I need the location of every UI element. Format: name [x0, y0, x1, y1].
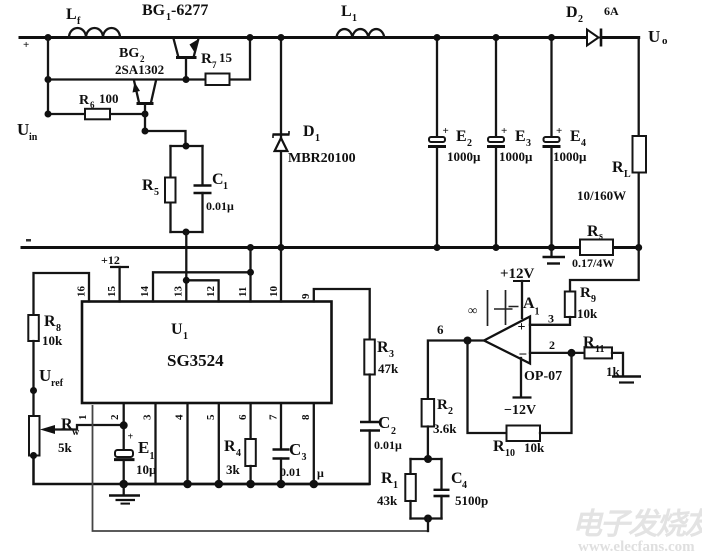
- signal ground bus y=484: [124, 483, 370, 486]
- junction pin4 bus: [183, 480, 192, 489]
- svg-text:0.17/4W: 0.17/4W: [572, 256, 614, 270]
- junction R1C4 bottom: [424, 515, 432, 523]
- svg-text:2: 2: [448, 406, 453, 417]
- svg-text:1: 1: [393, 480, 398, 491]
- resistor R6: [48, 109, 145, 120]
- svg-text:R: R: [224, 438, 236, 455]
- pin 9 wire to R3: [314, 289, 370, 340]
- label R6 100: [79, 91, 119, 110]
- capacitor C2: [360, 422, 380, 484]
- svg-text:2: 2: [391, 426, 396, 437]
- svg-text:10k: 10k: [42, 333, 63, 348]
- label RL: [612, 159, 631, 180]
- svg-text:R: R: [142, 177, 154, 194]
- pin 14 wire bracket to pin 11 column: [153, 272, 251, 301]
- svg-text:C: C: [378, 413, 390, 432]
- transistor BG1: [174, 39, 199, 80]
- label D2: [566, 4, 583, 25]
- svg-text:2: 2: [467, 138, 472, 149]
- svg-text:1: 1: [183, 331, 188, 342]
- svg-text:∞: ∞: [468, 303, 477, 318]
- junction E3 bottom: [493, 244, 500, 251]
- stray tick above bus left: [26, 239, 31, 242]
- svg-text:R: R: [79, 93, 90, 108]
- wire: output right column: [638, 38, 640, 248]
- svg-text:+12V: +12V: [500, 266, 535, 282]
- svg-text:C: C: [451, 470, 463, 487]
- junction R1C4 top: [424, 455, 432, 463]
- resistor R1: [405, 459, 416, 519]
- resistor R8: [28, 315, 39, 341]
- inductor Lf: [69, 28, 120, 38]
- resistor R5: [165, 146, 176, 232]
- junction D1 bottom on bus: [278, 244, 285, 251]
- svg-text:电子发烧友: 电子发烧友: [572, 508, 702, 541]
- junction R7 top on rail (248,37.5): [247, 34, 254, 41]
- label Rw: [61, 416, 80, 438]
- watermark elecfans: [572, 508, 702, 555]
- label U1: [171, 321, 188, 342]
- resistor R9: [565, 292, 576, 318]
- label R7 15: [201, 50, 233, 70]
- svg-text:5k: 5k: [58, 440, 73, 455]
- label Uo: [648, 27, 668, 47]
- resistor R7: [206, 38, 251, 86]
- pin 11 wire to bus: [249, 248, 251, 302]
- wire: R1C4 bottom stub to long line: [427, 519, 429, 532]
- svg-text:0.01μ: 0.01μ: [206, 199, 234, 213]
- junction input node (48,37.5): [45, 34, 52, 41]
- wire: BG2 node down-right to R5C1: [145, 114, 186, 146]
- svg-text:E: E: [138, 438, 149, 457]
- label R10: [493, 438, 515, 459]
- svg-text:D: D: [566, 4, 578, 21]
- label R4: [224, 438, 241, 459]
- svg-text:9: 9: [300, 293, 312, 299]
- svg-text:1: 1: [315, 133, 320, 144]
- label E1: [138, 438, 155, 462]
- svg-text:SG3524: SG3524: [167, 351, 224, 370]
- svg-text:R: R: [44, 313, 56, 330]
- pin 4 wire: [186, 405, 188, 484]
- svg-text:D: D: [303, 123, 315, 140]
- wire: R5/C1 bottom bracket: [171, 231, 203, 233]
- svg-text:OP-07: OP-07: [524, 369, 562, 384]
- power -12V to A1: [504, 358, 536, 418]
- wire: R1/C4 top bracket: [411, 458, 442, 460]
- svg-text:1: 1: [535, 307, 540, 318]
- junction output node: [464, 337, 472, 345]
- pin 13 / pin 12 bracket: [186, 280, 218, 301]
- junction R5C1 top (186,146): [183, 143, 190, 150]
- svg-text:14: 14: [139, 286, 151, 298]
- svg-text:−: −: [519, 347, 528, 363]
- label Rs: [587, 223, 603, 242]
- junction pin14 bracket joins pin11: [247, 269, 254, 276]
- svg-text:R: R: [437, 397, 448, 413]
- svg-text:8: 8: [300, 414, 312, 420]
- svg-text:2: 2: [578, 14, 583, 25]
- capacitor C4: [434, 459, 450, 519]
- wire: left input column x=48: [47, 38, 49, 115]
- junction pin5 bus: [215, 480, 224, 489]
- label A1: [523, 295, 540, 318]
- svg-text:4: 4: [581, 138, 586, 149]
- svg-text:3: 3: [548, 312, 554, 326]
- label R1: [381, 470, 398, 491]
- capacitor C1: [194, 146, 212, 232]
- label R3: [377, 339, 394, 360]
- junction Rs right: [635, 244, 642, 251]
- label E2: [456, 128, 472, 149]
- svg-text:5: 5: [205, 414, 217, 420]
- resistor R3: [364, 340, 375, 375]
- junction E4 top: [548, 34, 555, 41]
- svg-text:E: E: [456, 128, 467, 145]
- label BG1-6277: [142, 2, 208, 23]
- label Uin: [17, 120, 38, 143]
- capacitor E4: [543, 38, 563, 248]
- label R9: [580, 285, 596, 305]
- svg-text:1000μ: 1000μ: [499, 149, 533, 164]
- svg-text:3: 3: [389, 349, 394, 360]
- ground bus (main, y=247.5): [22, 246, 639, 249]
- svg-text:10k: 10k: [577, 306, 598, 321]
- svg-text:R: R: [381, 470, 393, 487]
- pin 10 wire to bus: [280, 248, 282, 302]
- junction E1 bottom: [119, 480, 128, 489]
- capacitor C3 on pin 7: [273, 405, 290, 484]
- svg-text:47k: 47k: [378, 361, 399, 376]
- svg-text:U: U: [17, 120, 29, 139]
- svg-text:+: +: [518, 320, 526, 335]
- transistor BG2: [133, 81, 157, 115]
- svg-text:15: 15: [219, 50, 233, 65]
- svg-text:μ: μ: [317, 466, 324, 480]
- svg-text:1: 1: [150, 451, 155, 462]
- svg-text:L: L: [66, 6, 77, 23]
- svg-text:6: 6: [237, 414, 249, 420]
- svg-text:1: 1: [223, 181, 228, 192]
- junction pin6 bus: [246, 480, 255, 489]
- svg-text:7: 7: [268, 414, 280, 420]
- label 0.01u (C3): [280, 465, 324, 480]
- svg-text:L: L: [624, 169, 631, 180]
- svg-text:U: U: [648, 27, 660, 46]
- inductor L1: [337, 29, 385, 37]
- pin 8 wire: [313, 405, 315, 484]
- svg-text:C: C: [212, 171, 224, 188]
- svg-text:R: R: [583, 334, 595, 351]
- diode D2: [587, 29, 601, 47]
- svg-text:13: 13: [173, 286, 185, 298]
- resistor R4 on pin 6: [245, 405, 256, 484]
- svg-text:C: C: [289, 440, 301, 459]
- resistor R10: [507, 353, 572, 441]
- svg-text:3k: 3k: [226, 462, 241, 477]
- capacitor E3: [487, 38, 507, 248]
- label C3: [289, 440, 307, 463]
- wire: R2 to R1C4 top: [427, 427, 429, 460]
- label L1: [341, 3, 357, 24]
- svg-text:o: o: [662, 35, 668, 47]
- label C2: [378, 413, 396, 437]
- junction D1 top on rail: [278, 34, 285, 41]
- resistor R11: [585, 347, 624, 375]
- wire: feedback output down to R10: [468, 341, 507, 434]
- svg-text:9: 9: [591, 294, 596, 305]
- ground symbol below E1: [109, 484, 140, 504]
- capacitor E2: [428, 38, 449, 248]
- label D1: [303, 123, 320, 144]
- label BG2: [119, 46, 145, 64]
- svg-text:U: U: [171, 321, 183, 338]
- svg-text:+12: +12: [101, 253, 120, 267]
- IC U1 SG3524: [82, 302, 332, 404]
- label R2: [437, 397, 453, 417]
- svg-text:15: 15: [106, 286, 118, 298]
- junction (48,114): [45, 111, 52, 118]
- svg-text:BG: BG: [119, 46, 139, 61]
- svg-text:7: 7: [212, 60, 217, 70]
- wire R3 to C2: [369, 375, 371, 422]
- pin 3 wire: [154, 405, 156, 484]
- junction at (186,79.5): [183, 76, 190, 83]
- junction pin13 bracket: [183, 277, 190, 284]
- svg-text:ref: ref: [51, 378, 64, 389]
- label E4: [570, 128, 586, 149]
- svg-text:R: R: [612, 159, 624, 176]
- pin 2 wire to E1: [123, 405, 125, 449]
- resistor R2: [422, 399, 435, 427]
- svg-text:MBR20100: MBR20100: [288, 151, 356, 166]
- svg-text:−12V: −12V: [504, 403, 536, 418]
- svg-text:+: +: [501, 125, 507, 137]
- svg-text:BG: BG: [142, 2, 166, 19]
- svg-text:10k: 10k: [524, 440, 545, 455]
- svg-text:R: R: [580, 285, 591, 301]
- svg-text:E: E: [570, 128, 581, 145]
- svg-text:L: L: [341, 3, 352, 20]
- svg-text:R: R: [377, 339, 389, 356]
- svg-text:U: U: [39, 366, 51, 385]
- junction E2 top: [434, 34, 441, 41]
- wire: R9 bottom to + input (pin 3): [530, 317, 570, 325]
- svg-text:3: 3: [302, 452, 307, 463]
- label R8: [44, 313, 61, 334]
- junction at (48,79.5): [45, 76, 52, 83]
- label Uref: [39, 366, 64, 389]
- pin 1 wire (long, to R1C4 bottom): [93, 405, 429, 531]
- svg-text:10μ: 10μ: [136, 462, 157, 477]
- svg-text:1000μ: 1000μ: [553, 149, 587, 164]
- label R11: [583, 334, 604, 355]
- wire: Rw bottom to signal ground bus: [34, 456, 124, 485]
- pin 5 wire: [218, 405, 220, 484]
- svg-text:0.01: 0.01: [280, 465, 301, 479]
- wire: A1 output (pin 6) to R2: [428, 341, 484, 400]
- svg-text:+: +: [23, 39, 29, 51]
- junction pin2 / wiper: [120, 421, 128, 429]
- svg-text:A: A: [523, 295, 535, 312]
- svg-text:1: 1: [352, 13, 357, 24]
- svg-text:www.elecfans.com: www.elecfans.com: [578, 539, 695, 555]
- junction Rw bottom: [30, 452, 37, 459]
- svg-text:6: 6: [437, 322, 444, 337]
- svg-text:4: 4: [462, 480, 467, 491]
- op-amp A1 OP-07: [484, 317, 530, 364]
- svg-text:3: 3: [526, 138, 531, 149]
- svg-text:11: 11: [237, 287, 249, 297]
- svg-text:s: s: [599, 231, 603, 242]
- wire: current sense from Rs right down-left to R9: [570, 248, 639, 292]
- svg-text:10/160W: 10/160W: [577, 188, 626, 203]
- svg-text:-6277: -6277: [171, 2, 208, 19]
- svg-text:3.6k: 3.6k: [433, 421, 457, 436]
- label Lf: [66, 6, 81, 27]
- capacitor E1: [114, 432, 135, 485]
- junction - input / feedback: [568, 349, 576, 357]
- svg-text:16: 16: [76, 286, 88, 298]
- svg-text:+: +: [443, 125, 449, 137]
- svg-text:0.01μ: 0.01μ: [374, 438, 402, 452]
- svg-text:E: E: [515, 128, 526, 145]
- diode D1 MBR20100: [273, 38, 290, 248]
- junction pin7 bus: [277, 480, 286, 489]
- wire: top rail left (input + to D2): [20, 36, 587, 39]
- svg-text:in: in: [29, 132, 38, 143]
- svg-text:43k: 43k: [377, 493, 398, 508]
- svg-text:R: R: [587, 223, 599, 240]
- wire: R5C1 bottom crossing ground bus down to pin13: [185, 232, 187, 302]
- wire: - input (pin 2) to R11: [530, 352, 585, 354]
- junction R5C1 bottom (186,232): [183, 229, 190, 236]
- svg-text:+: +: [128, 432, 134, 443]
- label C1: [212, 171, 228, 192]
- label C4: [451, 470, 467, 491]
- svg-text:+: +: [556, 125, 562, 137]
- junction pin11 column on bus: [247, 244, 254, 251]
- svg-text:w: w: [72, 427, 80, 438]
- svg-text:3: 3: [142, 414, 154, 420]
- svg-text:R: R: [493, 438, 505, 455]
- ground symbol at R11: [612, 377, 641, 383]
- node Uref: [30, 387, 37, 394]
- pin 16 wire to R8 chain: [34, 273, 90, 315]
- svg-text:12: 12: [205, 286, 217, 298]
- svg-text:1: 1: [77, 415, 89, 421]
- svg-text:4: 4: [236, 448, 241, 459]
- junction (145,131): [142, 128, 149, 135]
- svg-text:2: 2: [109, 414, 121, 420]
- svg-text:5100p: 5100p: [455, 493, 488, 508]
- wire: R1/C4 bottom bracket: [411, 517, 442, 519]
- svg-text:2: 2: [549, 338, 555, 352]
- svg-text:5: 5: [154, 187, 159, 198]
- junction E2 bottom: [434, 244, 441, 251]
- svg-text:100: 100: [99, 91, 119, 106]
- potentiometer Rw: [29, 416, 124, 456]
- svg-text:11: 11: [595, 344, 604, 355]
- ground symbol near E4: [543, 248, 566, 264]
- label E3: [515, 128, 531, 149]
- svg-text:2SA1302: 2SA1302: [115, 62, 164, 77]
- resistor RL: [633, 136, 647, 173]
- junction E3 top: [493, 34, 500, 41]
- pin 8 marks near A1 (scan artifacts): [468, 290, 519, 326]
- wire: base rail y=79.5 from left column to R7: [48, 78, 206, 80]
- power +12V to A1: [500, 266, 535, 318]
- svg-text:6A: 6A: [604, 4, 619, 18]
- wire: top rail right (D2 cathode to output corner): [601, 36, 639, 39]
- resistor Rs: [580, 240, 613, 256]
- junction E4 bottom: [548, 244, 555, 251]
- svg-text:4: 4: [174, 414, 186, 420]
- power +12 at pin 15: [110, 267, 129, 302]
- wire: R8 to Rw: [32, 341, 34, 416]
- junction pin8 bus: [310, 480, 319, 489]
- wire: R5/C1 top bracket: [171, 145, 203, 147]
- svg-text:10: 10: [268, 286, 280, 298]
- svg-text:R: R: [201, 51, 212, 67]
- svg-text:6: 6: [90, 100, 95, 110]
- svg-text:10: 10: [505, 448, 515, 459]
- label R5: [142, 177, 159, 198]
- junction BG2 emitter on R6 line (145,114): [142, 111, 149, 118]
- svg-text:1000μ: 1000μ: [447, 149, 481, 164]
